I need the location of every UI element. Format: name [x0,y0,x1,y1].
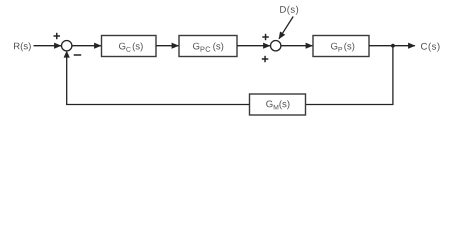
node R(s) input label [14,42,31,51]
summing junction S1 [61,41,71,51]
node D(s) disturbance label [280,6,298,15]
wire GPC to summing junction S2 [237,45,270,47]
block GPC [179,36,237,57]
sign + upper at S2 [262,34,269,40]
wire takeoff down to feedback line [306,46,393,105]
wire D(s) diagonal into S2 [279,17,293,39]
sign + lower at S2 [262,56,269,62]
block GP [313,36,369,57]
sign + at S1 [54,33,61,39]
label GPC(s) [193,42,223,51]
wire GC to block GPC [156,45,178,47]
label GM(s) [266,100,289,109]
summing junction S2 [271,41,281,51]
label GP(s) [331,42,354,51]
node C(s) output label [421,43,440,52]
label GC(s) [119,42,143,51]
sign - at S1 [74,54,82,56]
block GC [102,36,157,57]
junction dot at takeoff point [391,44,395,48]
arrowhead feedback into S1 [64,51,70,58]
wire GM back up into S1 [67,53,250,105]
wire GP to output C(s) [369,45,415,47]
wire S1 to block GC [72,45,101,47]
block GM [250,94,306,115]
wire S2 to block GP [281,45,313,47]
wire R(s) to summing junction S1 [34,45,61,47]
